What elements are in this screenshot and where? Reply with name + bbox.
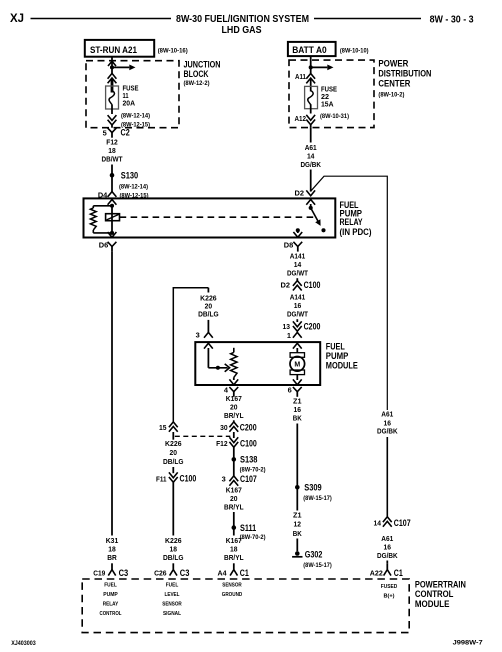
- wire below pin 15: [172, 432, 174, 440]
- svg-text:S138: S138: [240, 455, 257, 465]
- svg-text:C100: C100: [240, 439, 257, 449]
- svg-text:(8W-10-31): (8W-10-31): [320, 113, 349, 120]
- relay coil node upper: [111, 204, 113, 233]
- svg-text:30: 30: [220, 423, 228, 432]
- svg-text:DG/BK: DG/BK: [377, 426, 398, 435]
- wire into fuse 11: [111, 79, 114, 93]
- svg-text:G302: G302: [305, 550, 323, 560]
- svg-text:F11: F11: [156, 474, 167, 483]
- svg-text:XJ403003: XJ403003: [11, 640, 36, 647]
- splice S309: [295, 485, 300, 490]
- splice S111: [232, 525, 237, 530]
- svg-text:(8W-70-2): (8W-70-2): [240, 467, 266, 474]
- connector C107 pin 3: [229, 476, 238, 481]
- svg-text:(8W-10-16): (8W-10-16): [158, 47, 188, 54]
- svg-text:(8W-12-14): (8W-12-14): [121, 113, 150, 120]
- svg-text:FUSED: FUSED: [381, 584, 398, 590]
- node ST-RUN A21: [85, 40, 154, 57]
- svg-text:POWERTRAIN: POWERTRAIN: [415, 580, 466, 590]
- svg-text:PUMP: PUMP: [103, 592, 118, 598]
- svg-text:FUEL: FUEL: [326, 342, 345, 352]
- svg-text:C3: C3: [119, 568, 129, 578]
- relay coil input arrow: [108, 200, 117, 205]
- svg-text:A22: A22: [370, 569, 383, 578]
- connector C2 pin 5: [108, 128, 117, 133]
- connector half above fuse 11: [111, 67, 113, 73]
- svg-text:POWER: POWER: [378, 59, 408, 69]
- svg-text:BR/YL: BR/YL: [224, 502, 244, 511]
- svg-text:C100: C100: [180, 474, 197, 484]
- level sensor wiper: [208, 367, 227, 369]
- svg-text:PUMP: PUMP: [326, 351, 349, 361]
- wire K31 relay control: [111, 252, 113, 536]
- connector C200 pin 30: [233, 420, 235, 422]
- PCM pin A4 connector C1: [233, 563, 235, 569]
- svg-text:C100: C100: [304, 280, 321, 290]
- svg-text:5: 5: [103, 129, 107, 138]
- svg-text:(8W-15-17): (8W-15-17): [303, 495, 332, 502]
- junction node with feed arrow: [110, 65, 114, 69]
- splice S130: [110, 173, 115, 178]
- svg-text:D2: D2: [295, 188, 304, 197]
- connector C100 pin D2: [293, 281, 302, 286]
- wire into ground: [296, 539, 298, 552]
- powertrain control module enclosure: [82, 579, 409, 633]
- svg-text:BATT A0: BATT A0: [292, 45, 327, 56]
- svg-text:C3: C3: [180, 568, 190, 578]
- wire to connector C107 pin 14: [386, 437, 388, 517]
- svg-text:BR: BR: [107, 553, 117, 562]
- wire to splice S138: [233, 447, 235, 459]
- svg-text:BR/YL: BR/YL: [224, 553, 244, 562]
- wire to splice S130: [111, 165, 113, 176]
- wire ST-RUN A21 to junction block: [111, 57, 113, 68]
- fuel pump module box: [195, 342, 320, 385]
- fuel pump motor M: [290, 353, 304, 358]
- svg-text:C200: C200: [304, 322, 321, 332]
- relay switch common from D2: [306, 200, 315, 205]
- svg-text:DB/LG: DB/LG: [198, 309, 219, 318]
- svg-text:MODULE: MODULE: [326, 361, 358, 371]
- relay pin D4 connector: [108, 192, 117, 197]
- svg-text:3: 3: [222, 475, 226, 484]
- svg-text:1: 1: [287, 331, 291, 340]
- relay switch arm: [311, 208, 320, 224]
- fuel pump relay K31 box: [84, 198, 336, 237]
- module pin 3 entry arrow: [204, 343, 213, 348]
- wire below fuse 22: [310, 105, 312, 114]
- svg-text:DG/BK: DG/BK: [300, 160, 321, 169]
- svg-text:S111: S111: [240, 523, 256, 533]
- svg-text:D2: D2: [281, 281, 290, 290]
- svg-text:A4: A4: [218, 569, 228, 578]
- svg-text:S130: S130: [121, 171, 138, 181]
- svg-text:14: 14: [374, 518, 382, 527]
- svg-text:12: 12: [294, 520, 302, 529]
- svg-text:F12: F12: [216, 439, 228, 448]
- svg-text:DG/BK: DG/BK: [377, 551, 398, 560]
- module pin 3 connector half: [204, 332, 213, 337]
- svg-text:BK: BK: [293, 414, 303, 423]
- svg-text:3: 3: [196, 331, 200, 340]
- svg-text:DB/LG: DB/LG: [163, 457, 184, 466]
- svg-text:DG/WT: DG/WT: [287, 269, 308, 278]
- svg-text:S309: S309: [304, 483, 321, 493]
- wire K226 to PCM: [172, 482, 174, 535]
- wire into fuse 22: [310, 79, 312, 92]
- svg-text:(8W-12-14): (8W-12-14): [119, 184, 148, 191]
- svg-text:A11: A11: [295, 72, 306, 81]
- wire below fuse 11: [111, 105, 113, 114]
- svg-text:JUNCTION: JUNCTION: [184, 60, 221, 70]
- svg-text:CENTER: CENTER: [378, 79, 410, 89]
- wire K226 riser: [173, 288, 208, 422]
- svg-text:13: 13: [283, 322, 291, 331]
- svg-text:SIGNAL: SIGNAL: [163, 611, 181, 617]
- wire to module pin 3: [207, 320, 209, 333]
- svg-text:C107: C107: [240, 474, 257, 484]
- svg-text:DB/LG: DB/LG: [163, 553, 184, 562]
- svg-text:(8W-10-10): (8W-10-10): [340, 47, 369, 54]
- PCM pin C19 connector C3: [111, 563, 113, 569]
- wire to connector C100: [296, 278, 298, 280]
- svg-text:GROUND: GROUND: [222, 592, 243, 598]
- relay coil node lower: [110, 231, 114, 235]
- relay control dashed link: [120, 216, 316, 218]
- svg-text:FUEL: FUEL: [166, 583, 179, 589]
- svg-text:Z1: Z1: [293, 511, 302, 520]
- wire to connector C100 pin F11: [172, 467, 174, 473]
- connector halves 8W-12-14 / 8W-12-15: [108, 120, 117, 125]
- node BATT A0: [288, 42, 336, 56]
- svg-text:C2: C2: [121, 127, 130, 137]
- svg-text:ST-RUN A21: ST-RUN A21: [90, 45, 138, 56]
- wire to ground G302: [296, 487, 298, 510]
- fuse 11 20A: [106, 86, 119, 109]
- connector C200 pin 15: [169, 422, 178, 427]
- svg-text:(8W-15-17): (8W-15-17): [303, 562, 332, 569]
- junction node with feed arrow in PDC: [309, 65, 313, 69]
- svg-text:20: 20: [170, 448, 178, 457]
- svg-text:M: M: [294, 362, 300, 369]
- svg-text:C26: C26: [154, 569, 167, 578]
- svg-text:BR/YL: BR/YL: [224, 411, 244, 420]
- svg-text:20A: 20A: [123, 99, 136, 108]
- svg-text:C200: C200: [240, 423, 257, 433]
- PCM pin A22 connector C1: [386, 563, 388, 569]
- PCM pin C26 connector C3: [172, 563, 174, 569]
- svg-text:FUEL: FUEL: [104, 583, 117, 589]
- svg-text:CONTROL: CONTROL: [100, 611, 122, 617]
- motor ground exit arrow pin 6: [296, 375, 298, 380]
- svg-text:15: 15: [159, 423, 167, 432]
- ground G302: [295, 551, 300, 556]
- wire BATT A0 into PDC: [310, 56, 312, 67]
- fuse 22 15A: [305, 86, 318, 108]
- svg-text:C1: C1: [394, 568, 403, 578]
- header rule right: [314, 18, 421, 20]
- svg-text:C19: C19: [93, 569, 105, 578]
- wire between C200 and C100: [233, 432, 235, 438]
- svg-text:XJ: XJ: [10, 13, 24, 25]
- svg-text:SENSOR: SENSOR: [162, 602, 182, 608]
- svg-text:BLOCK: BLOCK: [184, 69, 209, 79]
- wire S130 to relay pin D4: [111, 175, 113, 192]
- branch wire to fused B(+) feed: [311, 176, 388, 410]
- svg-text:C107: C107: [394, 518, 411, 528]
- svg-text:A12: A12: [295, 114, 307, 123]
- svg-text:C1: C1: [240, 568, 249, 578]
- wire to connector C200: [296, 319, 298, 322]
- svg-text:(8W-10-2): (8W-10-2): [378, 92, 404, 99]
- svg-text:BK: BK: [293, 529, 303, 538]
- svg-text:A61: A61: [381, 409, 393, 418]
- relay switch contact: [321, 228, 325, 232]
- svg-text:D6: D6: [99, 240, 108, 249]
- svg-text:(8W-70-2): (8W-70-2): [240, 534, 266, 541]
- svg-text:(IN PDC): (IN PDC): [340, 227, 372, 237]
- wire S111 to PCM: [233, 528, 235, 536]
- svg-text:LHD GAS: LHD GAS: [222, 24, 262, 36]
- relay pin D2 connector: [306, 190, 315, 195]
- splice S138: [232, 457, 237, 462]
- wire to splice S309: [296, 424, 298, 486]
- svg-text:B(+): B(+): [384, 594, 395, 600]
- svg-text:DISTRIBUTION: DISTRIBUTION: [378, 69, 431, 79]
- svg-text:D8: D8: [284, 241, 293, 250]
- relay output node to D8: [296, 228, 300, 232]
- svg-text:RELAY: RELAY: [103, 602, 119, 608]
- wire to splice S111: [233, 512, 235, 528]
- wire PDC to branch: [310, 128, 312, 143]
- svg-text:J998W-7: J998W-7: [453, 640, 484, 647]
- svg-text:CONTROL: CONTROL: [415, 589, 454, 599]
- svg-text:DG/WT: DG/WT: [287, 310, 308, 319]
- wire to relay pin D2: [310, 170, 312, 192]
- module pin 1 entry arrow: [293, 343, 302, 348]
- connector C200 pin 13: [293, 326, 302, 331]
- fuel level sensor resistor: [233, 348, 235, 353]
- connector C200 dashed link: [175, 435, 231, 437]
- header rule left: [31, 18, 172, 20]
- svg-text:15A: 15A: [321, 100, 334, 109]
- connector half A12: [306, 120, 315, 125]
- svg-text:MODULE: MODULE: [415, 599, 450, 609]
- connector C100 pin F12: [229, 442, 238, 447]
- connector half A11: [310, 67, 312, 73]
- power distribution center enclosure: [289, 60, 374, 128]
- svg-text:6: 6: [288, 386, 292, 395]
- relay suppression resistor: [93, 205, 112, 207]
- wire to connector C107 pin 3: [233, 459, 235, 476]
- svg-text:DB/WT: DB/WT: [102, 155, 123, 164]
- relay coil: [106, 214, 120, 221]
- svg-text:K226: K226: [165, 439, 182, 448]
- connector C107 pin 14: [383, 517, 392, 522]
- svg-text:LEVEL: LEVEL: [165, 592, 180, 598]
- svg-text:(8W-12-2): (8W-12-2): [184, 80, 210, 87]
- relay pin D6 exit arrow: [108, 232, 117, 237]
- svg-text:8W - 30 - 3: 8W - 30 - 3: [430, 14, 474, 25]
- wire to PCM pin A22: [386, 561, 388, 564]
- sensor exit arrow pin 4: [229, 379, 238, 384]
- svg-text:RELAY: RELAY: [340, 217, 363, 227]
- fuel pump module pin 1 connector: [293, 332, 302, 337]
- connector C100 pin F11: [169, 477, 178, 482]
- svg-text:SENSOR: SENSOR: [222, 583, 242, 589]
- junction block enclosure: [86, 61, 179, 128]
